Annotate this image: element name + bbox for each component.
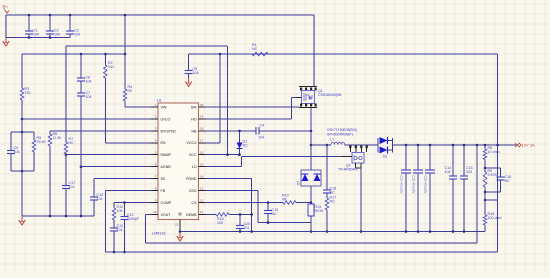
capacitor C19 <box>264 201 278 224</box>
wire pin9 COMP <box>114 202 151 204</box>
wire pin16 VCC <box>206 154 240 156</box>
wire pin18 HB <box>206 130 257 132</box>
diode D5 dual <box>297 145 322 203</box>
svg-text:101: 101 <box>244 226 250 230</box>
ground C5 <box>185 78 191 87</box>
svg-text:104: 104 <box>74 33 80 37</box>
svg-text:104: 104 <box>117 228 123 232</box>
svg-text:101: 101 <box>69 185 75 189</box>
wire left gnd rail <box>22 215 94 217</box>
svg-text:HO: HO <box>191 117 197 121</box>
label transformer part <box>327 128 357 137</box>
svg-text:D5: D5 <box>297 181 301 185</box>
svg-text:12: 12 <box>200 198 204 202</box>
capacitor C23 bulk <box>424 145 436 232</box>
wire FB column <box>104 191 106 253</box>
svg-text:CSG: CSG <box>189 189 197 193</box>
svg-text:100: 100 <box>217 221 223 225</box>
wire pin2 UVLO <box>22 118 151 120</box>
node loop C9 R5 top <box>11 131 34 133</box>
port B+ <box>3 5 10 14</box>
svg-text:2200pF: 2200pF <box>127 217 140 221</box>
svg-text:21: 21 <box>175 223 179 227</box>
svg-text:100 ohm: 100 ohm <box>488 216 502 220</box>
svg-text:0R: 0R <box>282 198 287 202</box>
junction CSG sense <box>0 0 1 1</box>
svg-text:NC: NC <box>243 144 249 148</box>
svg-text:R015: R015 <box>315 209 324 213</box>
resistor R2 <box>104 54 115 143</box>
resistor R10 <box>282 194 311 205</box>
svg-text:D3: D3 <box>383 155 387 159</box>
junction R8 R9 <box>484 167 487 170</box>
wire mid bus lower <box>22 53 125 55</box>
wire fb rail B <box>146 242 478 244</box>
capacitor C2 <box>46 15 60 38</box>
svg-text:104: 104 <box>54 33 60 37</box>
svg-text:14: 14 <box>200 174 204 178</box>
svg-text:UVLO: UVLO <box>161 117 171 121</box>
junction comp net <box>113 251 126 254</box>
junction RAMP tap <box>65 153 68 156</box>
svg-text:RT/SYNC: RT/SYNC <box>161 129 177 133</box>
wire fb sense column <box>476 145 478 243</box>
wire SW node <box>310 108 312 146</box>
svg-text:15: 15 <box>200 163 204 167</box>
junction output rail <box>405 144 499 147</box>
wire vin bus drop <box>227 46 229 155</box>
wire pin1 VIN <box>125 106 151 108</box>
capacitor C21 bulk <box>400 145 412 232</box>
svg-text:CS: CS <box>192 201 198 205</box>
wire pin15 LO <box>206 166 242 168</box>
resistor R8 <box>483 145 499 168</box>
capacitor C14 <box>445 145 458 232</box>
wire pin12 CS <box>206 202 284 204</box>
junction shunt top <box>310 201 313 204</box>
svg-text:104: 104 <box>445 170 451 174</box>
wire pin6 AGND <box>81 166 151 168</box>
wire VOUT column <box>145 214 147 243</box>
wire pin13 CSG <box>206 191 312 223</box>
wire cap return <box>6 15 70 38</box>
wire sense rail C <box>105 251 497 253</box>
svg-text:U1: U1 <box>157 99 162 103</box>
wire loop bottom <box>11 170 34 172</box>
junction cap return <box>28 36 52 39</box>
svg-text:16: 16 <box>200 151 204 155</box>
wire pin11 DEMB <box>206 213 217 215</box>
svg-text:NC: NC <box>69 141 75 145</box>
wire R1 to vout sense <box>497 54 499 145</box>
svg-text:L1: L1 <box>330 138 334 142</box>
wire gnd rail A <box>180 231 485 233</box>
resistor R5 <box>32 132 46 171</box>
IC pins <box>151 103 206 217</box>
svg-text:HB: HB <box>192 129 198 133</box>
svg-text:0R: 0R <box>128 89 133 93</box>
resistor R13 shunt <box>308 203 323 223</box>
capacitor C3 <box>66 15 80 38</box>
svg-text:104: 104 <box>86 95 92 99</box>
wire output rail <box>403 144 517 146</box>
svg-text:2.67K: 2.67K <box>488 173 498 177</box>
svg-text:VCCX: VCCX <box>187 141 198 145</box>
svg-text:18: 18 <box>200 127 204 131</box>
junction left gnd rail <box>49 215 83 218</box>
svg-text:17: 17 <box>200 139 204 143</box>
svg-text:NC: NC <box>252 47 258 51</box>
svg-text:104: 104 <box>14 150 20 154</box>
svg-text:10: 10 <box>153 210 157 214</box>
svg-text:VIN: VIN <box>161 105 167 109</box>
svg-text:FB: FB <box>161 189 166 193</box>
svg-text:COMP: COMP <box>161 201 172 205</box>
svg-text:VOUT: VOUT <box>161 213 172 217</box>
wire pin3 RT <box>50 130 151 132</box>
svg-text:C22 47u/25V: C22 47u/25V <box>412 176 416 195</box>
svg-text:11: 11 <box>200 210 203 214</box>
capacitor C1 <box>25 15 39 38</box>
capacitor C12 <box>121 203 140 253</box>
capacitor C10 softstart <box>90 179 103 216</box>
svg-text:SS: SS <box>161 177 166 181</box>
svg-text:12V 3A: 12V 3A <box>522 143 535 148</box>
op-amp U1 LM5116 body <box>152 99 199 236</box>
junction AGND tap <box>80 165 83 168</box>
svg-text:EN: EN <box>161 141 166 145</box>
resistor R12 <box>112 203 123 221</box>
capacitor C9 <box>7 132 20 171</box>
resistor R16 <box>216 213 252 225</box>
capacitor C18 snubber <box>323 145 336 195</box>
svg-text:LO: LO <box>192 165 197 169</box>
svg-text:13: 13 <box>200 186 204 190</box>
svg-text:C21 47u/25V: C21 47u/25V <box>400 176 404 195</box>
ground EP <box>177 230 183 241</box>
port +12V output <box>515 143 535 148</box>
wire pin4 EN <box>105 142 151 144</box>
capacitor C7 <box>77 81 92 216</box>
junction mid bus <box>80 53 222 56</box>
svg-text:NC: NC <box>330 200 336 204</box>
capacitor C13 <box>110 220 123 252</box>
svg-text:AGND: AGND <box>161 165 172 169</box>
capacitor C4 <box>256 123 311 139</box>
resistor R6 <box>48 131 62 216</box>
svg-text:PGND: PGND <box>186 177 197 181</box>
wire pin19 HO <box>206 98 297 119</box>
svg-text:CSD18540Q5B: CSD18540Q5B <box>318 93 342 97</box>
svg-text:VCC: VCC <box>189 153 197 157</box>
resistor R4 <box>123 15 132 107</box>
svg-text:TPH4R504PL: TPH4R504PL <box>338 168 359 172</box>
junction top rail <box>28 14 127 17</box>
inductor L1 <box>311 138 378 146</box>
svg-text:LM5116: LM5116 <box>152 232 165 236</box>
svg-text:B+: B+ <box>3 5 9 10</box>
svg-text:104: 104 <box>193 71 199 75</box>
capacitor C15 <box>460 145 473 232</box>
svg-text:SW: SW <box>191 105 197 109</box>
junction rail A <box>239 230 466 233</box>
wire Q2 gate <box>241 156 352 166</box>
wire pin8 FB <box>105 190 151 192</box>
junction VCC <box>226 153 241 156</box>
svg-text:RAMP: RAMP <box>161 153 172 157</box>
svg-text:C4: C4 <box>260 123 265 127</box>
diode D1 <box>237 131 249 155</box>
wire pin20 SW <box>206 106 300 108</box>
junction HB <box>238 130 312 133</box>
wire pin5 RAMP <box>66 154 151 156</box>
svg-text:GRV71T60E05(B01): GRV71T60E05(B01) <box>327 128 357 132</box>
svg-text:104: 104 <box>86 80 92 84</box>
svg-text:104: 104 <box>33 33 39 37</box>
svg-text:NC: NC <box>330 191 336 195</box>
wire C5 feed <box>189 53 498 55</box>
svg-text:29.4K: 29.4K <box>37 140 47 144</box>
svg-text:750: 750 <box>25 91 31 95</box>
pin 21 EP pad <box>175 213 181 232</box>
svg-text:20: 20 <box>200 103 204 107</box>
svg-text:101: 101 <box>108 65 114 69</box>
junction left col <box>21 118 24 173</box>
junction COMP branch <box>123 201 126 204</box>
capacitor C17 <box>62 155 75 216</box>
wire pin14 PGND <box>206 179 252 232</box>
svg-text:SPH5004R0ABTL: SPH5004R0ABTL <box>327 133 354 137</box>
svg-text:104: 104 <box>466 170 472 174</box>
wire R3 lower <box>21 132 23 216</box>
capacitor C6 <box>77 54 92 84</box>
diode D3 dual <box>378 137 403 159</box>
wire sense gnd <box>497 145 499 252</box>
capacitor C20 <box>236 214 250 231</box>
junction DEMB PGND <box>239 213 253 216</box>
resistor R7 <box>64 46 74 154</box>
wire pin10 VOUT <box>146 213 152 215</box>
svg-text:104: 104 <box>97 197 103 201</box>
capacitor C16 <box>485 168 511 192</box>
resistor R15 <box>483 192 501 232</box>
wire Q1 gate stub <box>296 97 302 99</box>
resistor R1 <box>252 43 268 56</box>
wire shunt to gnd <box>310 223 313 233</box>
resistor R9 <box>483 168 497 192</box>
svg-text:10K: 10K <box>117 209 124 213</box>
wire pin7 SS <box>94 178 151 180</box>
wire pin17 VCCX <box>206 54 221 143</box>
svg-text:NC: NC <box>272 212 278 216</box>
svg-text:DEMB: DEMB <box>186 213 197 217</box>
svg-text:NC: NC <box>505 179 511 183</box>
wire VIN top rail <box>6 14 314 16</box>
resistor R17 snubber <box>325 193 336 233</box>
svg-text:104: 104 <box>258 135 264 139</box>
wire mid bus upper <box>66 45 228 47</box>
ground P port <box>3 38 9 47</box>
transistor Q2 <box>338 146 368 233</box>
svg-text:19: 19 <box>200 115 204 119</box>
wire sense gnd link <box>485 199 498 201</box>
svg-text:C23 47u/25V: C23 47u/25V <box>424 176 428 195</box>
ground left rail <box>19 217 25 226</box>
junction SW node <box>310 144 329 147</box>
svg-text:11.3K: 11.3K <box>53 136 63 140</box>
junction R9 bottom <box>484 191 487 202</box>
resistor R3 <box>20 54 30 132</box>
capacitor C5 <box>185 54 199 78</box>
transistor Q1 <box>299 15 342 108</box>
capacitor C22 bulk <box>412 145 424 232</box>
